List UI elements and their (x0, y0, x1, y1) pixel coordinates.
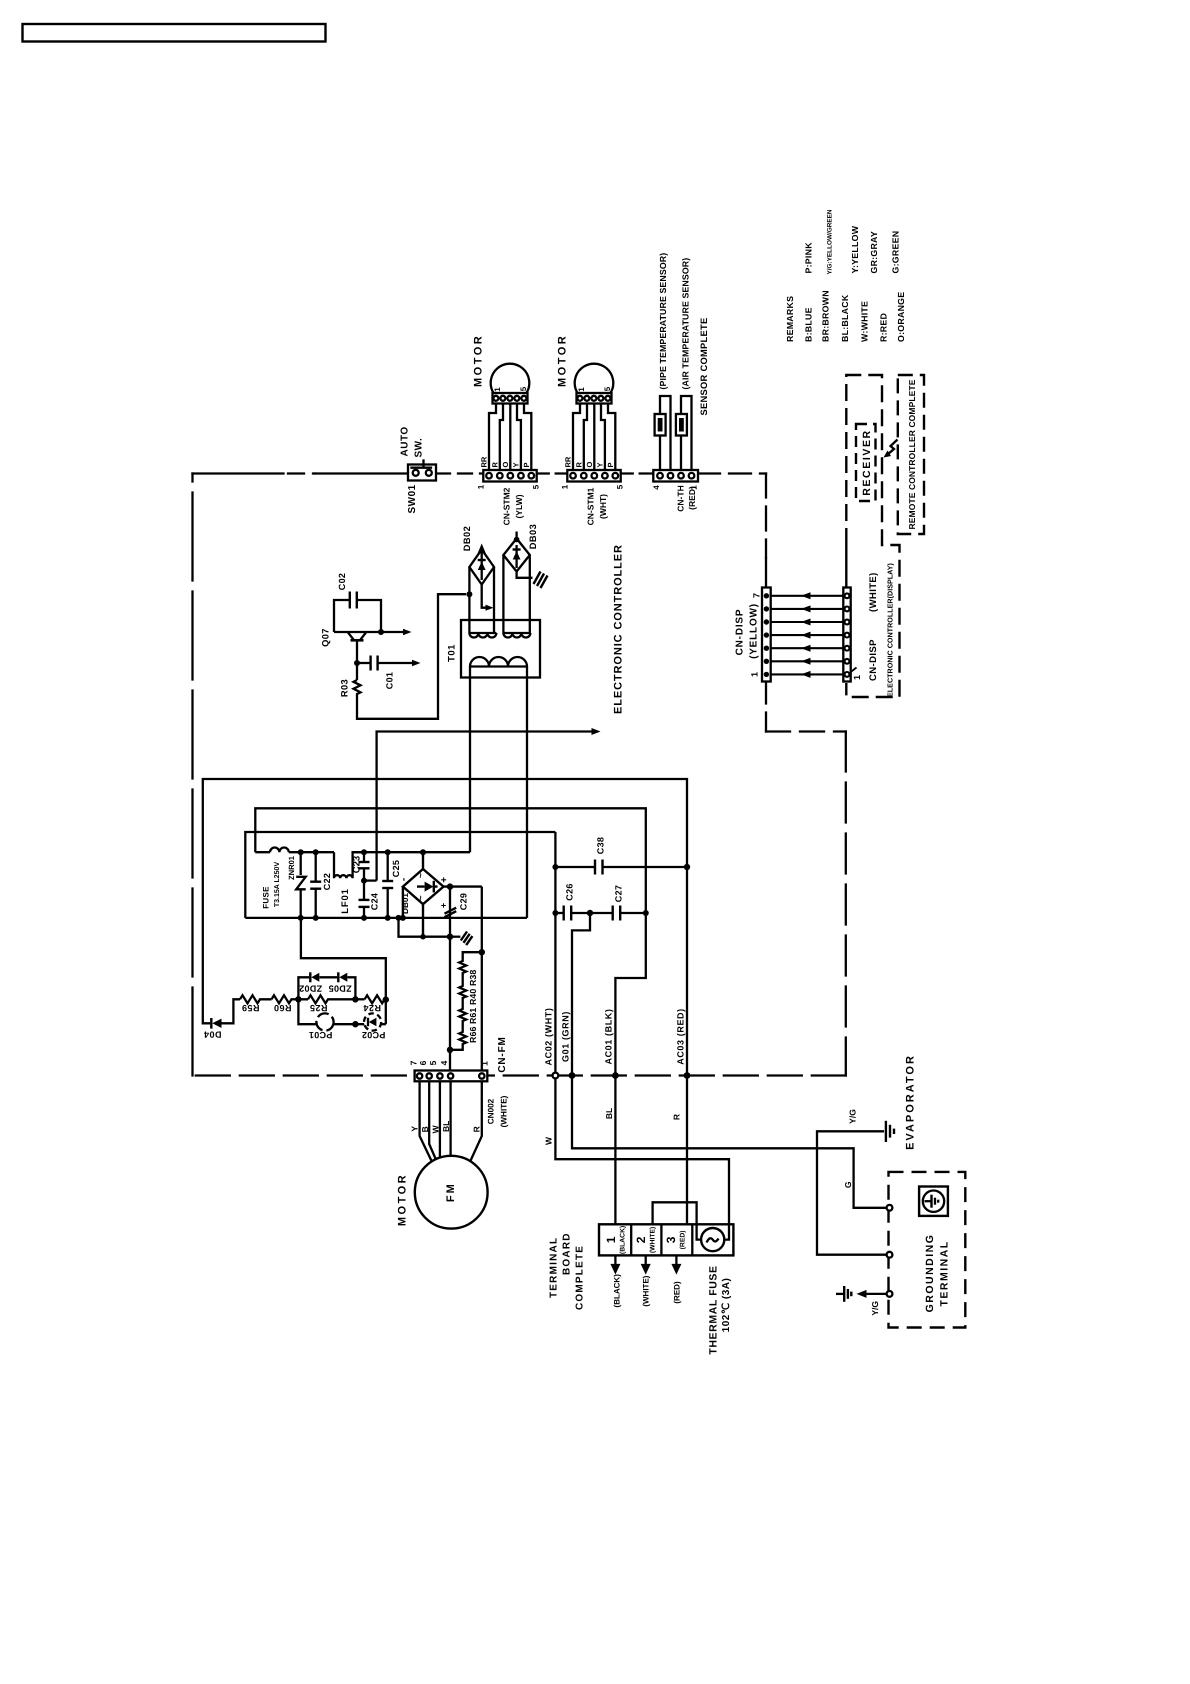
photocoupler PC02 (364, 1013, 381, 1030)
line filter LF01 (334, 852, 364, 878)
svg-text:PC02: PC02 (362, 1030, 386, 1040)
svg-text:W:WHITE: W:WHITE (860, 301, 870, 342)
wire G01 hook (572, 913, 590, 1073)
wire R24 to bottom rail (301, 918, 386, 999)
svg-text:5: 5 (519, 386, 528, 391)
svg-text:G:GREEN: G:GREEN (890, 231, 900, 274)
transistor Q07 with C02 feedback (334, 592, 466, 719)
svg-text:(BLACK): (BLACK) (613, 1274, 622, 1308)
svg-text:7: 7 (408, 1060, 418, 1065)
svg-text:AC03 (RED): AC03 (RED) (676, 1008, 686, 1065)
PCB boundary right vertical upper (765, 474, 767, 559)
capacitor C22 (310, 852, 321, 918)
T01 secondary winding 2 (503, 633, 530, 638)
svg-text:CN002: CN002 (487, 1098, 496, 1124)
resistor R60 (272, 995, 309, 1003)
svg-text:R60: R60 (273, 1003, 291, 1013)
svg-text:4: 4 (439, 1060, 449, 1065)
svg-text:DB01: DB01 (401, 893, 410, 914)
photocoupler PC01 (298, 999, 385, 1030)
wire collector-emitter Q07 (334, 631, 381, 633)
svg-text:TERMINAL: TERMINAL (939, 1240, 951, 1306)
svg-text:FM: FM (445, 1182, 457, 1202)
svg-text:(AIR TEMPERATURE SENSOR): (AIR TEMPERATURE SENSOR) (681, 258, 691, 390)
svg-text:B: B (420, 1126, 430, 1132)
diode D04 (203, 999, 240, 1028)
svg-text:5: 5 (428, 1060, 438, 1065)
connector CN-FM (415, 1071, 488, 1082)
capacitor C38 (555, 860, 687, 875)
svg-text:O: O (501, 462, 510, 468)
wires motor1 to CN-STM1 (573, 404, 615, 471)
svg-text:(RED): (RED) (673, 1281, 682, 1304)
PCB boundary bottom edge (193, 1074, 846, 1076)
svg-text:1: 1 (479, 1061, 489, 1066)
svg-text:1: 1 (493, 387, 502, 392)
svg-text:C22: C22 (322, 873, 332, 890)
transformer T01 (461, 620, 540, 678)
terminal AC03 (684, 1072, 691, 1079)
svg-text:CN-DISP: CN-DISP (868, 639, 879, 681)
zener diode row ZD02 ZD05 (298, 972, 355, 999)
svg-text:BL: BL (604, 1108, 614, 1119)
svg-text:C26: C26 (565, 883, 575, 900)
svg-text:ELECTRONIC CONTROLLER: ELECTRONIC CONTROLLER (613, 544, 625, 714)
capacitor C29 (electrolytic) (445, 887, 457, 1071)
ground (DB03) (534, 572, 548, 589)
CN-STM1 pin wire labels (564, 456, 616, 467)
PCB boundary below CN-DISP yellow (765, 682, 767, 732)
svg-text:DB02: DB02 (462, 526, 472, 551)
svg-text:SW01: SW01 (407, 484, 418, 513)
svg-text:LF01: LF01 (340, 888, 351, 913)
svg-text:TERMINAL: TERMINAL (549, 1237, 560, 1298)
bridge rectifier DB01 (403, 852, 482, 937)
IR signal zigzag arrow (887, 440, 898, 456)
svg-text:R:RED: R:RED (878, 313, 888, 342)
svg-text:C02: C02 (337, 573, 347, 590)
svg-text:Y: Y (409, 1126, 419, 1132)
svg-text:AC01 (BLK): AC01 (BLK) (604, 1008, 614, 1064)
svg-text:~: ~ (416, 873, 426, 878)
terminal AC02 (open) (553, 1073, 559, 1079)
arrows below terminal board (615, 1255, 676, 1266)
svg-text:D04: D04 (203, 1030, 221, 1040)
svg-text:Y/G: Y/G (847, 1109, 857, 1124)
svg-text:R: R (491, 462, 500, 468)
svg-text:2: 2 (634, 1236, 648, 1243)
svg-text:C01: C01 (385, 672, 395, 689)
wire G (G01 to grounding terminal) (572, 1076, 887, 1208)
PCB boundary dash: top edge segments (193, 472, 284, 474)
svg-text:+: + (439, 903, 449, 908)
svg-text:6: 6 (418, 1060, 428, 1065)
svg-text:R03: R03 (340, 679, 350, 697)
svg-text:GR:GRAY: GR:GRAY (869, 231, 879, 273)
svg-text:R: R (672, 1114, 682, 1120)
svg-text:P:PINK: P:PINK (804, 242, 814, 274)
svg-text:(WHITE): (WHITE) (649, 1227, 656, 1253)
svg-text:Y:YELLOW: Y:YELLOW (850, 225, 860, 273)
svg-text:W: W (544, 1136, 554, 1145)
svg-text:C25: C25 (391, 860, 401, 877)
arrow to controller (C01) (412, 660, 421, 666)
svg-text:REMARKS: REMARKS (785, 296, 795, 342)
svg-text:R24: R24 (363, 1003, 381, 1013)
junction dots power section (298, 849, 304, 855)
svg-text:B:BLUE: B:BLUE (804, 307, 814, 342)
svg-text:DB03: DB03 (528, 524, 538, 549)
svg-text:MOTOR: MOTOR (397, 1173, 409, 1226)
svg-text:CN-STM2: CN-STM2 (502, 487, 512, 525)
fuse T3.15A (255, 848, 334, 853)
terminal AC01 (612, 1072, 619, 1079)
svg-text:(RED): (RED) (679, 1230, 686, 1249)
title box top-left (23, 24, 326, 42)
svg-text:ZD05: ZD05 (328, 984, 351, 994)
svg-text:COMPLETE: COMPLETE (575, 1245, 586, 1310)
svg-text:(BLACK): (BLACK) (620, 1226, 627, 1254)
legend REMARKS column (785, 225, 906, 342)
svg-text:GROUNDING: GROUNDING (924, 1234, 936, 1313)
svg-text:Y: Y (512, 462, 521, 467)
svg-text:W: W (430, 1124, 440, 1133)
svg-text:R59: R59 (241, 1003, 259, 1013)
ground (evaporator Y/G) (886, 1121, 894, 1142)
svg-text:RR: RR (480, 456, 489, 467)
bottom rail (245, 917, 527, 919)
svg-text:MOTOR: MOTOR (557, 334, 569, 387)
capacitor C26 (555, 906, 590, 921)
svg-text:7: 7 (752, 593, 762, 598)
svg-text:BOARD: BOARD (562, 1232, 573, 1275)
svg-text:C29: C29 (459, 893, 469, 910)
T01 primary winding (470, 657, 527, 667)
svg-text:1: 1 (577, 387, 586, 392)
svg-text:(YLW): (YLW) (514, 494, 524, 518)
receiver box (856, 424, 876, 501)
svg-text:MOTOR: MOTOR (473, 334, 485, 387)
junction dots sense chain (295, 996, 301, 1002)
resistor R24 (365, 995, 386, 1003)
resistor R03 (354, 594, 467, 719)
svg-text:1: 1 (750, 672, 760, 677)
capacitor C27 (590, 906, 646, 921)
node minus rail tap (396, 915, 402, 921)
svg-text:G01 (GRN): G01 (GRN) (561, 1011, 571, 1062)
capacitor C02 loop (334, 600, 349, 632)
svg-text:ZNR01: ZNR01 (287, 855, 296, 880)
grounding terminal symbol (919, 1187, 948, 1216)
wire AC02 vertical (554, 832, 556, 1073)
thermistor pipe temperature sensor (655, 414, 666, 436)
svg-text:1: 1 (852, 675, 862, 680)
wire AC03 upper run (203, 779, 687, 1225)
bridge rectifier DB02 (469, 550, 494, 634)
svg-text:5: 5 (603, 386, 612, 391)
wire W (AC02 to thermal fuse) (555, 1078, 729, 1224)
svg-text:THERMAL FUSE: THERMAL FUSE (708, 1265, 720, 1354)
wire DB01 plus to R38 chain (481, 887, 483, 1071)
wire bottom Y/G with arrow to ground (866, 1293, 887, 1295)
svg-text:ZD02: ZD02 (299, 984, 322, 994)
thermal fuse circle (701, 1228, 724, 1251)
terminal board complete (599, 1224, 733, 1255)
svg-text:Y/G:YELLOW/GREEN: Y/G:YELLOW/GREEN (827, 209, 834, 274)
svg-text:REMOTE CONTROLLER COMPLETE: REMOTE CONTROLLER COMPLETE (907, 379, 917, 529)
wire to controller (collector node) (381, 631, 404, 633)
remote controller complete box (898, 375, 924, 534)
svg-text:AC02 (WHT): AC02 (WHT) (543, 1008, 553, 1066)
wire T01 primary lead left (469, 667, 471, 853)
svg-text:R25: R25 (309, 1003, 327, 1013)
svg-text:R: R (575, 462, 584, 468)
svg-text:BL: BL (441, 1121, 451, 1132)
node Q07 collector (378, 629, 384, 635)
svg-text:Y/G: Y/G (870, 1301, 880, 1316)
svg-text:SW.: SW. (414, 438, 425, 458)
wires motor2 to CN-STM2 (489, 404, 531, 471)
wires CN-FM to motor FM (420, 1081, 482, 1164)
bridge rectifier DB03 (503, 532, 532, 634)
varistor ZNR01 (296, 852, 306, 918)
motor FM circle (415, 1156, 488, 1229)
wire AC02 upper run (245, 832, 555, 918)
connector CN-STM1 (567, 470, 620, 482)
CN-FM pin numbers (408, 1060, 489, 1066)
7 display harness wires with arrows (771, 596, 844, 675)
svg-text:(WHITE): (WHITE) (642, 1275, 651, 1306)
svg-text:C27: C27 (614, 885, 624, 902)
svg-text:1: 1 (477, 484, 486, 489)
svg-text:(WHITE): (WHITE) (868, 572, 879, 612)
FM wire labels Y B W BL R (409, 1121, 481, 1134)
motor M2 (louver) dome (491, 364, 530, 404)
svg-text:EVAPORATOR: EVAPORATOR (905, 1054, 917, 1150)
svg-text:R: R (472, 1126, 482, 1132)
svg-text:(RED): (RED) (687, 486, 697, 510)
node DB02 left (C02/R03 tap) (466, 591, 472, 597)
svg-text:Y: Y (596, 462, 605, 467)
svg-text:CN-DISP: CN-DISP (735, 609, 746, 656)
svg-text:(WHITE): (WHITE) (500, 1095, 509, 1127)
wire R branch to thermal fuse (653, 1202, 697, 1224)
svg-text:CN-FM: CN-FM (497, 1036, 508, 1072)
grounding terminal circles (887, 1205, 893, 1211)
capacitor C25 (382, 852, 393, 918)
svg-text:1: 1 (604, 1236, 618, 1243)
svg-text:AUTO: AUTO (400, 426, 411, 456)
svg-text:C23: C23 (352, 856, 363, 873)
wire DC output to controller with arrow (377, 732, 593, 881)
svg-text:O: O (585, 462, 594, 468)
grounding terminal dashed box (889, 1172, 966, 1328)
svg-text:RECEIVER: RECEIVER (861, 429, 873, 495)
svg-text:FUSE: FUSE (262, 886, 271, 909)
svg-text:CN-TH: CN-TH (676, 485, 686, 511)
display unit dash-dot enclosure (846, 375, 899, 697)
T01 secondary winding 1 (469, 633, 496, 638)
resistor chain R38 R40 R61 R66 (450, 952, 482, 1050)
connector CN-TH (653, 470, 698, 482)
thermistor air temperature sensor (676, 414, 687, 436)
svg-text:5: 5 (532, 484, 541, 489)
motor M1 dome (575, 364, 614, 404)
arrow to controller (Q07) (403, 629, 412, 635)
sensor loop wires (pipe temp) (660, 396, 692, 470)
svg-text:+: + (439, 877, 450, 883)
svg-text:Q07: Q07 (321, 628, 331, 647)
capacitor C23 (359, 852, 370, 880)
svg-text:CN-STM1: CN-STM1 (586, 487, 596, 525)
switch SW01 (AUTO SW.) (408, 465, 436, 481)
ground (DC minus) (450, 936, 460, 938)
capacitor C24 (359, 881, 377, 918)
svg-text:(PIPE TEMPERATURE SENSOR): (PIPE TEMPERATURE SENSOR) (658, 253, 668, 390)
terminal G01 (569, 1072, 576, 1079)
svg-text:T01: T01 (447, 644, 458, 662)
svg-text:P: P (522, 462, 531, 467)
capacitor C01 (357, 662, 370, 664)
svg-text:RR: RR (564, 456, 573, 467)
svg-text:R66 R61 R40 R38: R66 R61 R40 R38 (468, 970, 478, 1043)
svg-text:ELECTRONIC CONTROLLER(DISPLAY): ELECTRONIC CONTROLLER(DISPLAY) (886, 562, 895, 697)
top rail segment to T01 (353, 851, 470, 853)
node DB01 plus (447, 883, 453, 889)
connector CN-STM2 (483, 470, 536, 482)
svg-text:BL:BLACK: BL:BLACK (840, 294, 850, 342)
svg-text:~: ~ (416, 895, 426, 900)
svg-text:102℃ (3A): 102℃ (3A) (721, 1278, 732, 1333)
svg-text:-: - (399, 878, 410, 881)
CN-STM2 pin wire labels RR R O Y P (480, 456, 532, 467)
PCB boundary left vertical (191, 474, 193, 1076)
connector CN-DISP (WHITE) (843, 588, 850, 682)
svg-text:T3.15A L250V: T3.15A L250V (274, 862, 281, 908)
svg-text:(YELLOW): (YELLOW) (749, 603, 760, 659)
svg-text:(WHT): (WHT) (598, 494, 608, 519)
wire stubs to thermal fuse (697, 1224, 729, 1239)
svg-text:G: G (843, 1181, 853, 1188)
svg-text:C24: C24 (370, 893, 380, 910)
svg-text:O:ORANGE: O:ORANGE (896, 292, 906, 342)
svg-text:BR:BROWN: BR:BROWN (821, 290, 831, 342)
wire AC01 upper run (255, 808, 646, 1224)
wire Y/G evaporator (817, 1131, 887, 1254)
wire Q07 base down (356, 640, 358, 663)
resistor R59 (240, 995, 272, 1003)
wire DB01 minus return (399, 918, 451, 937)
connector CN-DISP (YELLOW) (762, 588, 771, 682)
svg-text:SENSOR COMPLETE: SENSOR COMPLETE (699, 318, 709, 416)
svg-text:P: P (606, 462, 615, 467)
svg-text:4: 4 (652, 485, 661, 490)
ground (bottom Y/G) (844, 1286, 851, 1302)
svg-text:5: 5 (616, 484, 625, 489)
svg-text:3: 3 (664, 1236, 678, 1243)
node Q07 base / C01 (354, 660, 360, 666)
svg-text:C38: C38 (596, 837, 606, 854)
resistor R25 (308, 995, 355, 1003)
svg-text:1: 1 (561, 484, 570, 489)
wire T01 primary lead right (526, 667, 528, 918)
svg-text:PC01: PC01 (309, 1030, 333, 1040)
